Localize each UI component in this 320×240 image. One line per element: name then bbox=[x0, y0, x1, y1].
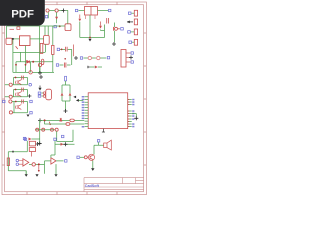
transistor Q1 bbox=[16, 80, 22, 85]
wire bbox=[32, 138, 40, 140]
junction bbox=[36, 142, 40, 146]
bottom tick bbox=[102, 129, 105, 132]
diode D3 bbox=[99, 26, 102, 29]
connector circle bbox=[38, 63, 41, 66]
tick bbox=[12, 151, 14, 153]
resistor R10 bbox=[70, 119, 74, 122]
right pin red ticks bbox=[128, 100, 129, 127]
relay K1 box bbox=[65, 24, 71, 31]
diode D4 bbox=[27, 60, 30, 63]
ground arrow bbox=[91, 168, 94, 171]
junction dot bbox=[44, 119, 46, 121]
junction dot bbox=[38, 163, 40, 165]
junction dot bbox=[15, 77, 17, 79]
capacitor C4 bbox=[56, 58, 70, 68]
connector circle bbox=[9, 111, 12, 114]
net label bbox=[62, 135, 64, 137]
red stub bbox=[38, 165, 40, 169]
crystal box bbox=[29, 141, 35, 146]
frame outer border bbox=[2, 2, 146, 195]
pin PAD4 bbox=[129, 39, 138, 45]
ground arrow bbox=[27, 115, 30, 117]
title block bbox=[84, 178, 144, 192]
wires bridge area bbox=[13, 44, 54, 72]
capacitor C2 electrolytic bbox=[41, 59, 44, 65]
capacitor bars bbox=[22, 100, 24, 104]
wire secondary loop bbox=[80, 15, 105, 38]
connector circle bbox=[9, 100, 12, 103]
relay K2 box bbox=[44, 36, 50, 45]
wire bus row1 bbox=[40, 120, 85, 143]
pin PAD2 arrow bbox=[127, 19, 138, 25]
junction dot bbox=[32, 61, 34, 63]
right pins group1 bbox=[128, 100, 132, 105]
capacitor C1 bbox=[107, 18, 109, 24]
group 3 wires bbox=[12, 102, 28, 113]
junction dots on bridge bbox=[15, 64, 17, 66]
junction bbox=[62, 9, 66, 13]
wire bbox=[98, 10, 109, 12]
base label bbox=[77, 156, 79, 158]
net label D bbox=[45, 16, 47, 18]
frame tick marks bbox=[2, 2, 146, 195]
diode D9 diagonal bbox=[49, 122, 51, 125]
blue pin circle bbox=[29, 83, 32, 86]
divider diode pair bbox=[61, 76, 72, 113]
bridge box B1 bbox=[20, 36, 31, 46]
connector circle J2 bbox=[55, 9, 58, 12]
diode D6 bbox=[29, 138, 32, 141]
box wires bbox=[57, 130, 73, 142]
wire bbox=[94, 142, 104, 154]
wire row y=38.9 bbox=[12, 39, 44, 73]
wire bbox=[55, 143, 75, 145]
wire bbox=[26, 141, 28, 152]
wire verticals bbox=[26, 164, 56, 174]
transistor Q4 bbox=[88, 154, 94, 160]
resistor R12 bbox=[40, 43, 43, 53]
frame inner border bbox=[5, 5, 144, 192]
red mark bbox=[16, 46, 18, 49]
transistor Q5 bbox=[51, 158, 56, 164]
net label bbox=[24, 138, 26, 140]
net label D bbox=[30, 112, 32, 114]
transistor Q3 bbox=[16, 105, 22, 110]
wire to transistor bbox=[45, 161, 51, 165]
red line to opamp bbox=[30, 152, 32, 157]
junction bbox=[112, 42, 116, 46]
wire bbox=[39, 67, 41, 72]
bottom small row bbox=[23, 137, 25, 139]
transistor Q2 bbox=[16, 92, 22, 97]
wire bbox=[48, 12, 56, 23]
junction bbox=[38, 71, 42, 75]
net label bbox=[97, 140, 99, 142]
junction dot bbox=[15, 89, 17, 91]
net label D bbox=[109, 9, 111, 11]
wire main horizontal bbox=[7, 10, 68, 72]
group 1 wires bbox=[5, 78, 28, 85]
connector circle J1 bbox=[46, 9, 49, 12]
net label D bbox=[30, 100, 32, 102]
pin PAD1 bbox=[128, 10, 137, 16]
svg-text:CadSoft: CadSoft bbox=[85, 184, 100, 188]
junction bbox=[39, 75, 43, 79]
collector wire bbox=[51, 141, 64, 161]
resistor R1 bbox=[52, 45, 54, 54]
op-amp U2 bbox=[23, 159, 29, 166]
jumper JP1 bbox=[114, 27, 124, 31]
PDF badge bbox=[0, 0, 45, 26]
pad box X1 bbox=[6, 38, 12, 44]
connector circle bbox=[84, 156, 87, 159]
left pin labels bbox=[82, 96, 85, 128]
junction dot bbox=[12, 38, 14, 40]
net arrow into IC bbox=[76, 99, 79, 102]
connector circle bbox=[32, 163, 35, 166]
output wire bbox=[29, 163, 45, 165]
junction bbox=[132, 114, 137, 117]
junction bbox=[38, 118, 42, 122]
junction dot bbox=[15, 101, 17, 103]
ground arrows bbox=[25, 174, 28, 177]
cap C6 bbox=[7, 158, 9, 166]
net label D bbox=[54, 26, 56, 28]
net label D bbox=[75, 9, 77, 11]
transformer T1 bbox=[85, 7, 98, 16]
junction bbox=[38, 142, 42, 146]
wire bbox=[79, 10, 85, 12]
junction dot bbox=[89, 37, 91, 39]
connector circle bbox=[9, 95, 12, 98]
IC body bbox=[88, 93, 128, 129]
feedback wires bbox=[8, 152, 27, 176]
capacitor bars bbox=[22, 76, 24, 80]
speaker LS1 bbox=[104, 140, 112, 150]
net label bbox=[54, 138, 56, 140]
ground arrow bbox=[88, 39, 91, 42]
small label component on wire bbox=[17, 27, 20, 30]
junction bbox=[38, 143, 42, 145]
diode D8 bbox=[61, 143, 64, 146]
2-pin connector X2 bbox=[38, 86, 51, 100]
diode D5 up arrow bbox=[60, 118, 63, 121]
diode D1 bbox=[55, 17, 58, 20]
pin PAD3 bbox=[128, 29, 138, 35]
resistor row bbox=[74, 56, 110, 60]
transformer pin stubs bbox=[86, 15, 96, 19]
connector circle bbox=[29, 71, 32, 74]
svg-text:PDF: PDF bbox=[11, 9, 34, 21]
left pins bbox=[85, 97, 89, 127]
wire bbox=[49, 10, 63, 12]
junction bbox=[64, 142, 68, 146]
wire row2 bbox=[44, 123, 84, 125]
junction dot bbox=[59, 25, 61, 27]
group 3 bbox=[3, 100, 5, 102]
group 2 wires bbox=[5, 90, 28, 97]
input circles bbox=[16, 159, 19, 162]
connector circles row3 bbox=[36, 128, 39, 131]
wire bbox=[114, 23, 116, 43]
wire row3 bbox=[35, 129, 55, 131]
capacitor C3 bbox=[57, 45, 73, 66]
capacitor bars bbox=[22, 88, 24, 92]
wire bbox=[80, 156, 84, 158]
pin header SV1 bbox=[121, 50, 133, 68]
resistor R11 bbox=[66, 123, 70, 126]
right pins group3 bbox=[128, 119, 132, 127]
net label bbox=[65, 160, 67, 162]
junction bbox=[28, 94, 32, 98]
right pins group2 bbox=[128, 111, 132, 116]
diode D2 bbox=[78, 19, 81, 22]
connector circle bbox=[9, 83, 12, 86]
wire emitter bbox=[92, 161, 94, 169]
diode row bbox=[88, 66, 102, 69]
cap below bbox=[29, 148, 35, 152]
